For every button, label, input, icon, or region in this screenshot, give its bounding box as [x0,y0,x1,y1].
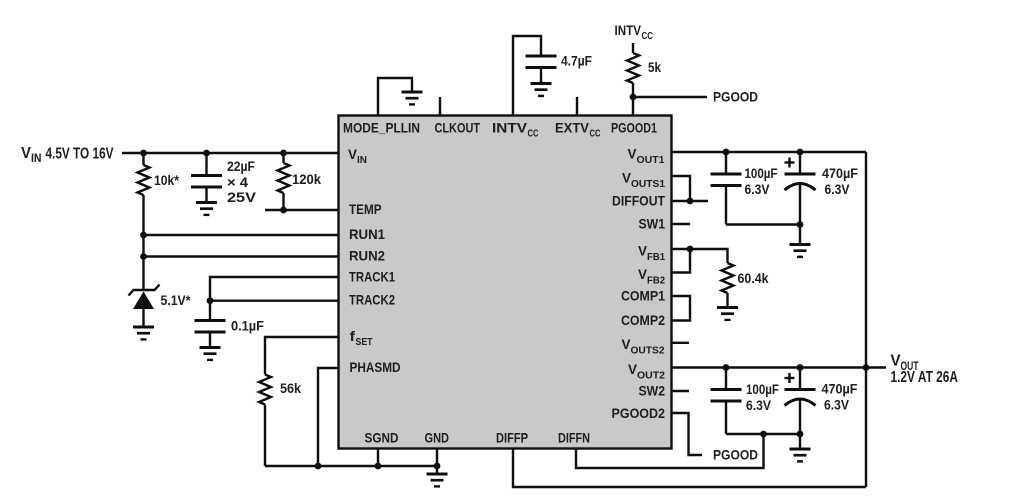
wire PGOOD stub top [633,96,707,98]
node VOUT1 at 470uF [797,149,804,156]
capacitor C 4.7uF [526,56,557,68]
svg-text:TEMP: TEMP [349,201,382,217]
svg-text:DIFFP: DIFFP [496,430,528,446]
svg-text:PHASMD: PHASMD [350,359,401,375]
wire GND pin down to ground [436,449,438,475]
svg-text:OUT1: OUT1 [637,154,665,166]
svg-text:5.1V*: 5.1V* [161,292,191,308]
node VOUT2 at 470uF [797,364,804,371]
svg-text:10k*: 10k* [154,172,179,188]
svg-text:EXTV: EXTV [555,119,590,135]
resistor R 10k* [138,165,150,195]
wire VOUT2 to right rail [672,366,867,368]
node ch2 DIFFN tap [760,431,767,438]
wire SGND pin down [377,449,379,467]
node VOUT2 at 100uF [723,364,730,371]
svg-text:PGOOD: PGOOD [713,89,758,105]
wire ch2 cap ground bus [726,433,800,435]
node VOUTS1/DIFFOUT junction [687,198,694,205]
node VFB junction [687,246,694,253]
svg-text:60.4k: 60.4k [738,270,769,286]
svg-text:4.7µF: 4.7µF [561,53,592,69]
svg-text:0.1µF: 0.1µF [231,318,264,334]
svg-text:CC: CC [590,128,601,140]
node RUN1 junction [140,232,147,239]
wire VFB1 to 60.4k [672,249,728,263]
wire DIFFOUT stub [672,200,709,202]
ground ch2 output caps [790,449,811,461]
svg-text:470µF: 470µF [822,165,858,181]
plus sign (ch2) [785,377,795,379]
wire PHASMD down to ground wire [318,368,339,466]
ground below 22uF [196,203,217,215]
capacitor C 100uF 6.3V (ch2) [725,368,727,390]
IC U1 body [339,116,672,449]
wire SW2 stub [672,390,690,392]
svg-text:DIFFN: DIFFN [558,430,590,446]
svg-text:56k: 56k [280,380,301,396]
wire COMP1-COMP2 tie [672,296,691,321]
wire VOUTS1 to DIFFOUT [672,176,691,201]
svg-text:CLKOUT: CLKOUT [435,119,481,135]
svg-text:TRACK2: TRACK2 [349,292,395,308]
svg-text:× 4: × 4 [227,174,248,190]
svg-text:6.3V: 6.3V [745,181,771,197]
svg-text:4.5V TO 16V: 4.5V TO 16V [46,146,114,163]
capacitor C 0.1uF [209,301,211,321]
node RUN2 junction [140,253,147,260]
svg-text:PGOOD1: PGOOD1 [611,119,657,135]
wire VFB2 tie to VFB1 [672,249,691,273]
svg-text:OUTS1: OUTS1 [631,178,665,190]
node PHASMD junction [315,463,322,470]
wire fSET down to 56k [265,337,339,375]
ground below 60.4k [717,308,738,320]
svg-text:OUTS2: OUTS2 [631,345,665,357]
node PGOOD1/5k junction [630,94,637,101]
svg-text:100µF: 100µF [745,165,778,181]
wire TEMP with stub [265,209,339,211]
ground at MODE_PLLIN [402,92,423,104]
svg-text:FB2: FB2 [647,274,665,286]
resistor R 120k [282,153,284,163]
wire TRACK1 [210,277,339,301]
svg-text:COMP2: COMP2 [621,312,665,328]
svg-text:CC: CC [642,30,654,42]
svg-text:PGOOD: PGOOD [713,447,758,463]
resistor R 60.4k [722,263,734,293]
svg-text:PGOOD2: PGOOD2 [612,405,666,421]
wire INTVCC up to 4.7uF [513,36,541,116]
svg-text:OUT2: OUT2 [637,369,665,381]
wire RUN1 [144,234,339,236]
svg-text:120k: 120k [292,171,321,187]
svg-text:SW2: SW2 [639,383,666,399]
capacitor C+ 470uF 6.3V (ch1) [799,152,801,174]
capacitor C 100uF 6.3V (ch1) [725,152,727,174]
capacitor C+ 470uF 6.3V (ch2) [799,368,801,390]
svg-text:GND: GND [425,430,450,446]
svg-text:CC: CC [528,128,539,140]
wire VOUTS2 stub [672,342,690,344]
node ch2 cap ground [797,431,804,438]
svg-text:INTV: INTV [492,119,528,135]
svg-text:6.3V: 6.3V [825,181,851,197]
svg-text:RUN1: RUN1 [349,226,385,242]
svg-text:6.3V: 6.3V [824,397,850,413]
svg-text:100µF: 100µF [746,381,779,397]
wire bottom signal ground bus [265,465,437,467]
wire PGOOD2 to net label [672,413,703,455]
wire SW1 stub [672,223,691,225]
svg-text:MODE_PLLIN: MODE_PLLIN [343,119,420,135]
svg-text:DIFFOUT: DIFFOUT [612,193,665,209]
capacitor C 22uF x4 25V [205,153,207,176]
node TRACK junction [207,297,214,304]
svg-text:SET: SET [356,336,373,348]
svg-text:TRACK1: TRACK1 [349,269,395,285]
plus sign (ch1) [785,161,795,163]
svg-text:f: f [350,328,356,344]
ground ch1 output caps [790,245,811,257]
svg-text:RUN2: RUN2 [349,248,385,264]
svg-text:IN: IN [357,154,367,166]
svg-text:SGND: SGND [365,430,399,446]
svg-text:FB1: FB1 [647,251,665,263]
svg-text:22µF: 22µF [227,158,255,174]
svg-text:COMP1: COMP1 [621,288,665,304]
wire DIFFN to output cap ground node [576,434,764,468]
node GND junction [434,463,441,470]
wire RUN2 [144,255,339,257]
node VIN junction at 22uF [203,150,210,157]
svg-text:SW1: SW1 [639,216,666,232]
wire MODE_PLLIN to ground hook [378,78,412,116]
svg-text:IN: IN [31,153,42,165]
svg-text:1.2V AT 26A: 1.2V AT 26A [891,369,959,386]
node TEMP/120k junction [280,207,287,214]
svg-text:25V: 25V [227,189,257,205]
wire EXTVCC stub [576,97,578,116]
ground below zener [133,327,154,339]
svg-text:470µF: 470µF [822,381,858,397]
resistor R 56k [259,375,271,405]
wire ch1 cap ground bus [726,223,800,225]
node VOUT1 at 100uF [723,149,730,156]
wire TRACK2 [210,300,339,302]
node VIN junction at 120k [280,150,287,157]
wire VOUT stub [866,366,886,368]
wire DIFFP to right rail bottom [513,449,866,488]
svg-text:5k: 5k [648,59,661,75]
ground below 4.7uF [531,84,552,96]
node SGND junction [375,463,382,470]
node VIN junction at 10k [140,150,147,157]
resistor R 5k [632,43,634,53]
svg-text:INTV: INTV [615,22,642,38]
zener diode D1 5.1V [129,285,160,328]
wire VOUT1 to right rail [672,151,867,153]
wire right rail VOUT [865,152,867,487]
wire VIN input to IC VIN pin [122,152,339,154]
svg-text:6.3V: 6.3V [746,397,772,413]
node VOUT2 at right rail [863,364,870,371]
wire CLKOUT stub [439,97,441,116]
ground below 0.1uF [200,348,221,360]
node ch1 cap ground [797,221,804,228]
ground below GND pin [427,474,448,486]
wire left rail VIN down through RUN1 RUN2 to zener [142,153,144,165]
